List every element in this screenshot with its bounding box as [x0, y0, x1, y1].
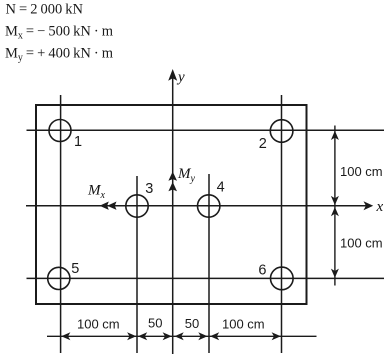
svg-text:50: 50	[185, 316, 199, 331]
dim arrow down to row 5-6	[331, 269, 339, 278]
dim arrow down to x axis	[331, 196, 339, 205]
svg-text:My = + 400 kN · m: My = + 400 kN · m	[5, 46, 114, 64]
svg-text:100 cm: 100 cm	[340, 236, 383, 251]
pile column line 3	[136, 176, 138, 353]
svg-text:100 cm: 100 cm	[77, 317, 120, 332]
svg-text:My: My	[177, 166, 196, 185]
pile circle 5	[48, 267, 70, 289]
pile circle 6	[271, 267, 294, 290]
svg-text:6: 6	[258, 263, 266, 279]
dim arrow right to column 3	[127, 332, 136, 340]
pile circle 1	[49, 120, 71, 142]
footing outline rectangle	[36, 105, 307, 304]
pile circle 4	[198, 195, 220, 217]
svg-text:3: 3	[145, 181, 153, 197]
svg-text:100 cm: 100 cm	[222, 317, 265, 332]
svg-text:5: 5	[71, 261, 79, 277]
dim arrow right to y axis	[163, 332, 172, 340]
pile column line 2/6	[281, 95, 283, 353]
pile column line 1/5	[60, 95, 62, 353]
svg-text:N = 2 000 kN: N = 2 000 kN	[6, 2, 84, 18]
row line through piles 1-2	[27, 129, 385, 131]
svg-text:Mx: Mx	[87, 183, 106, 202]
dim arrow up from x axis	[331, 207, 339, 216]
dim arrow left from column 3	[138, 332, 147, 340]
svg-text:Mx = − 500 kN · m: Mx = − 500 kN · m	[5, 24, 114, 42]
dim arrow left to column 1	[61, 332, 70, 340]
row line through piles 5-6	[27, 277, 385, 279]
moment arrow My (double head, pointing up along y axis)	[168, 172, 177, 192]
svg-text:1: 1	[74, 134, 82, 150]
dim arrow left from column 4	[210, 332, 219, 340]
svg-text:50: 50	[148, 316, 162, 331]
dim arrow left from y axis	[175, 332, 184, 340]
x axis	[26, 201, 373, 210]
bottom horizontal dimension line	[47, 335, 317, 337]
moment arrow Mx (double head, pointing left along x axis)	[100, 202, 117, 210]
svg-text:2: 2	[259, 136, 267, 152]
svg-text:4: 4	[217, 180, 225, 196]
right vertical dimension line	[334, 126, 336, 286]
pile circle 2	[270, 120, 293, 143]
svg-text:x: x	[376, 199, 384, 215]
pile column line 4	[208, 174, 210, 353]
dim arrow right to column 6	[272, 332, 281, 340]
svg-text:y: y	[176, 70, 185, 86]
pile circle 3	[126, 195, 148, 217]
svg-text:100 cm: 100 cm	[340, 164, 383, 179]
y axis	[168, 69, 177, 354]
dim arrow right to column 4	[198, 332, 207, 340]
dim arrow up to row 1-2	[331, 131, 339, 140]
